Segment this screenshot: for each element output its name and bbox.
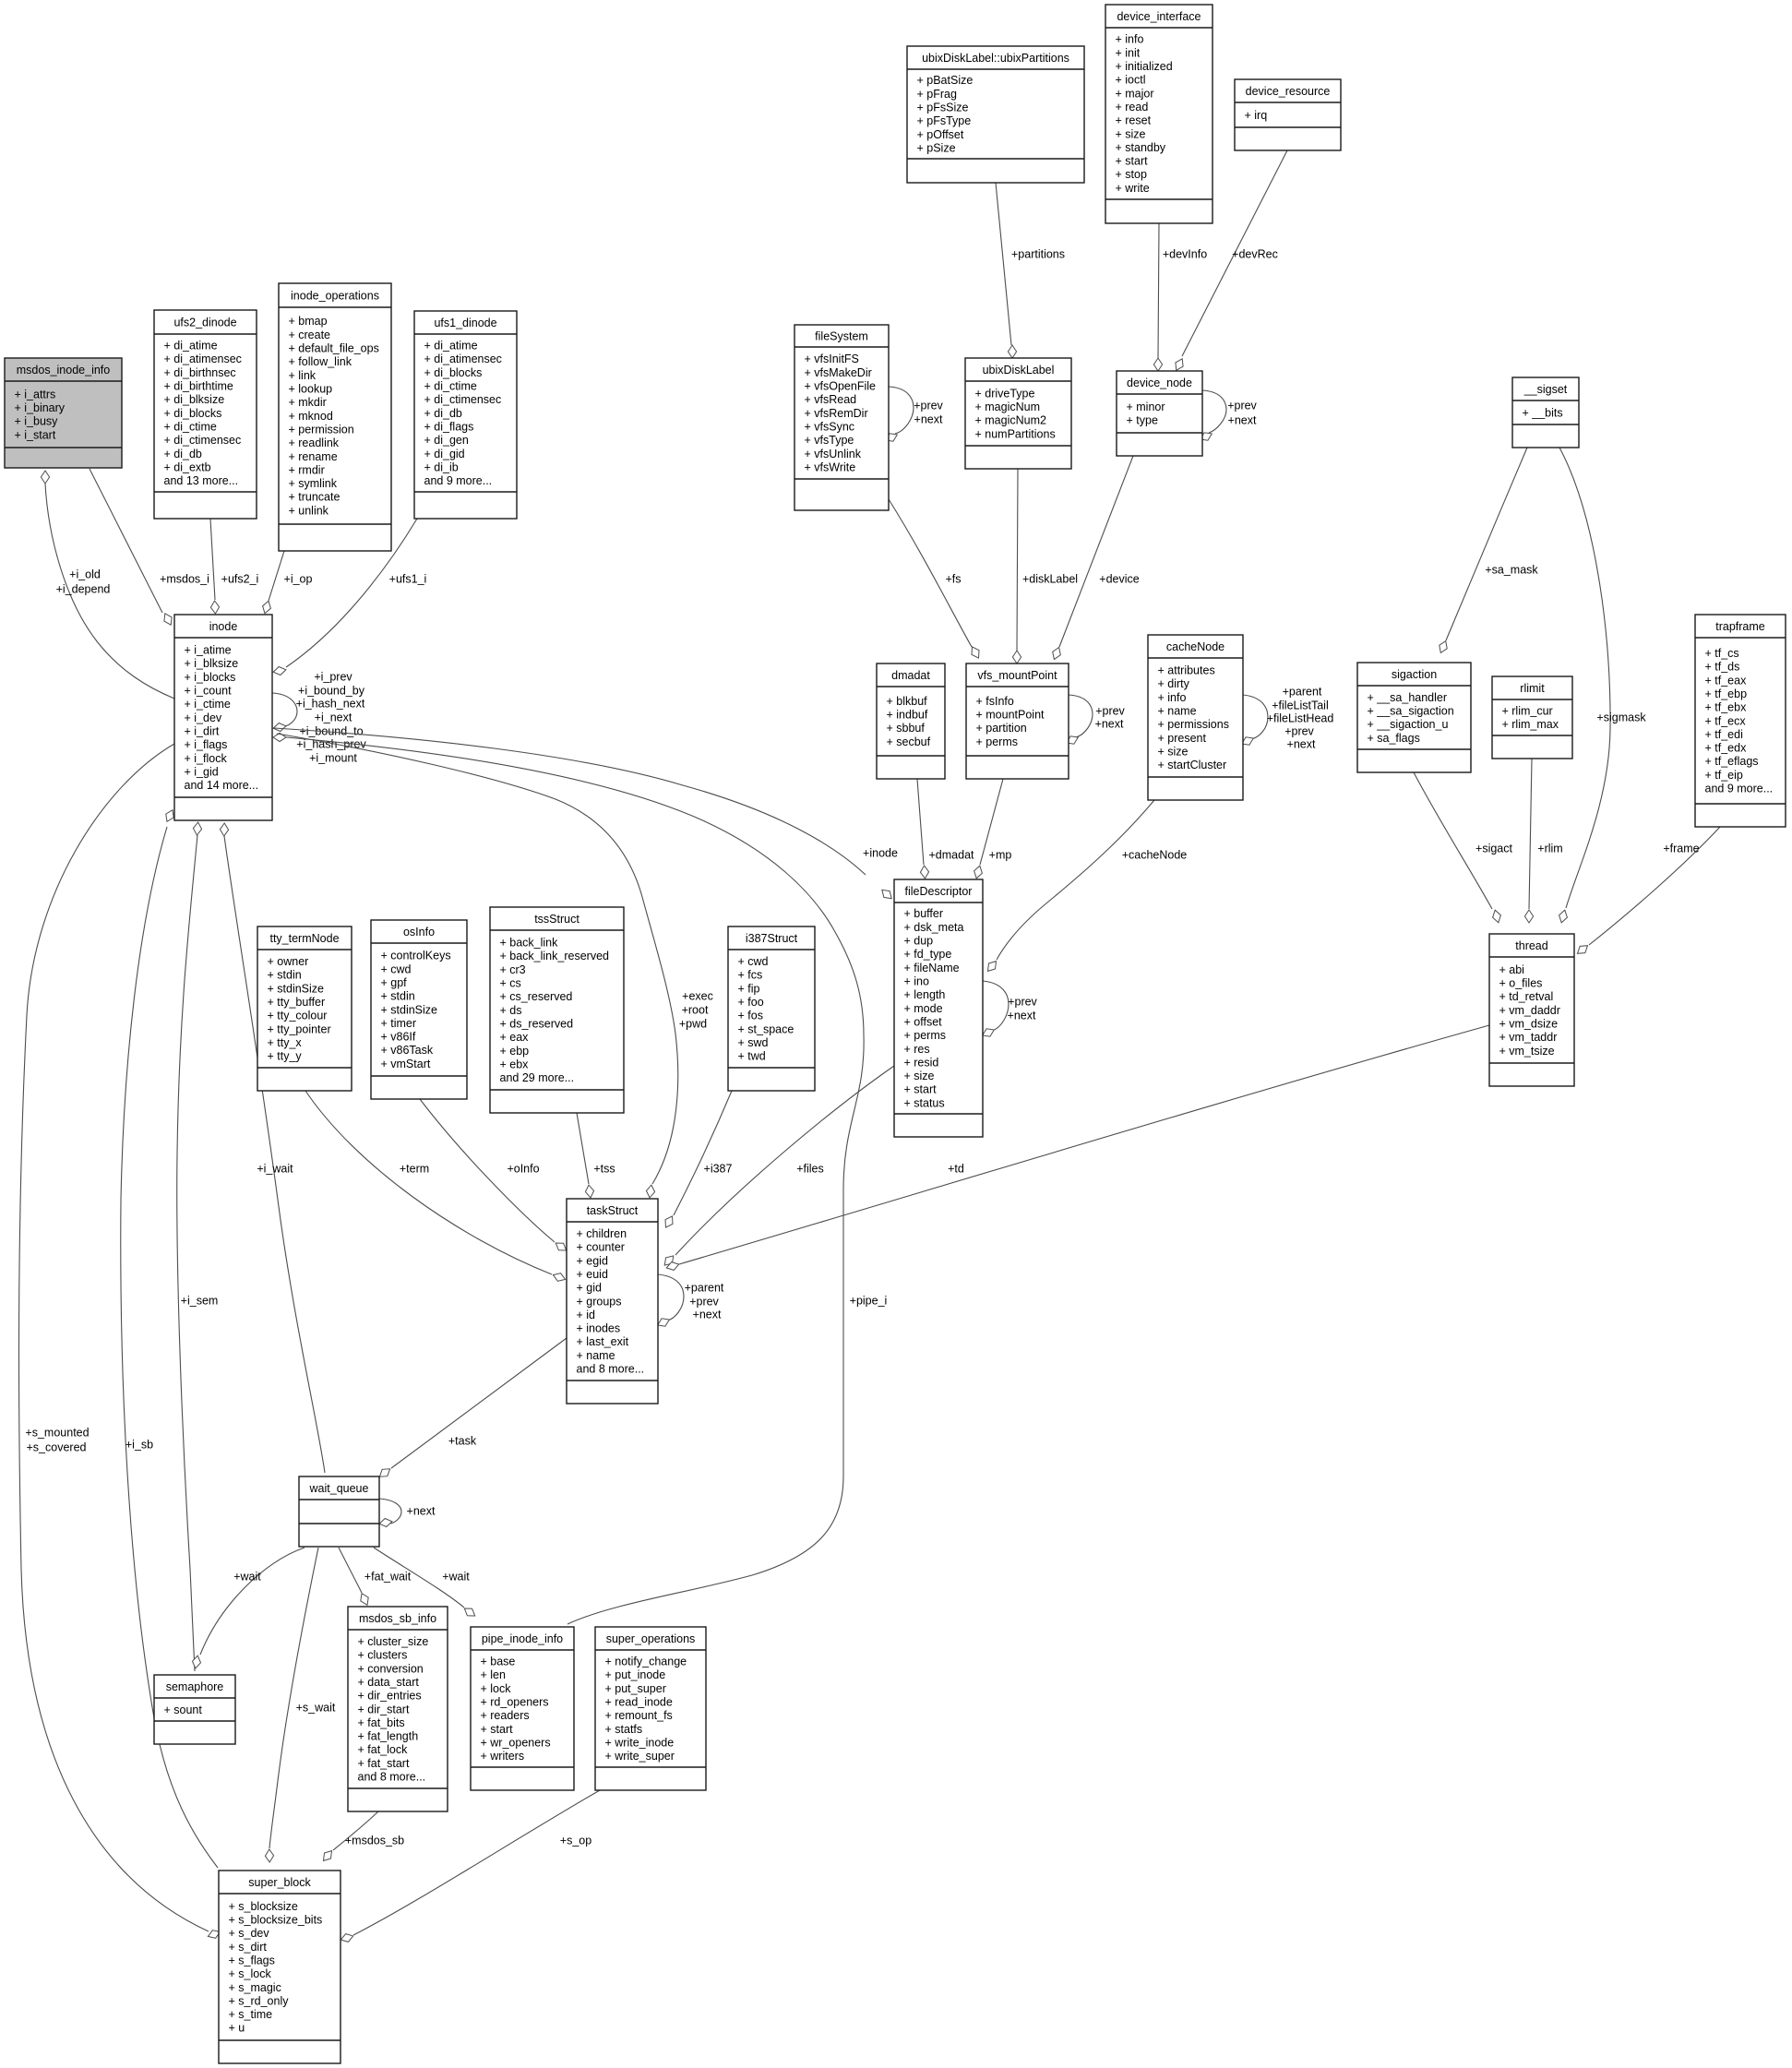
svg-text:+ dsk_meta: + dsk_meta <box>904 921 964 934</box>
svg-text:pipe_inode_info: pipe_inode_info <box>482 1632 563 1645</box>
svg-text:+ tf_ebp: + tf_ebp <box>1705 687 1748 700</box>
svg-text:+fileListHead: +fileListHead <box>1267 711 1334 724</box>
svg-text:+ lock: + lock <box>481 1682 512 1695</box>
svg-text:+next: +next <box>914 412 943 425</box>
svg-text:+ perms: + perms <box>904 1029 947 1042</box>
class box tssStruct <box>490 907 624 1113</box>
svg-text:+ res: + res <box>904 1043 930 1056</box>
svg-text:+ fat_start: + fat_start <box>358 1757 410 1770</box>
edge __sigset->thread (+sigmask) <box>1559 448 1647 923</box>
class box inode <box>174 615 272 820</box>
svg-text:+files: +files <box>796 1162 824 1175</box>
class box ubixDiskLabel <box>965 358 1071 469</box>
svg-text:+ mknod: + mknod <box>289 410 333 423</box>
edge ubixPartitions->ubixDiskLabel (+partitions) <box>996 183 1065 358</box>
svg-text:+ ebp: + ebp <box>500 1045 530 1058</box>
svg-text:+sa_mask: +sa_mask <box>1485 563 1538 576</box>
svg-text:+ info: + info <box>1158 691 1187 704</box>
svg-text:+ vfsWrite: + vfsWrite <box>805 460 856 473</box>
svg-text:+ tty_pointer: + tty_pointer <box>268 1022 331 1035</box>
svg-text:+ lookup: + lookup <box>289 383 333 396</box>
svg-text:+ di_birthtime: + di_birthtime <box>164 380 233 393</box>
svg-text:+ st_space: + st_space <box>738 1022 794 1035</box>
svg-text:+ i_atime: + i_atime <box>185 644 232 657</box>
svg-text:+ i_flock: + i_flock <box>185 752 228 765</box>
svg-text:+ size: + size <box>1158 745 1189 758</box>
svg-text:+ inodes: + inodes <box>577 1322 621 1335</box>
svg-text:+ di_ctime: + di_ctime <box>164 420 217 433</box>
svg-text:+ permission: + permission <box>289 423 354 436</box>
svg-text:+ pOffset: + pOffset <box>917 128 964 141</box>
svg-text:+ major: + major <box>1116 87 1154 100</box>
class box thread <box>1489 934 1574 1086</box>
svg-text:+ partition: + partition <box>976 722 1027 735</box>
svg-text:+ vfsUnlink: + vfsUnlink <box>805 448 862 460</box>
edge ufs2_dinode->inode (+ufs2_i) <box>210 519 258 614</box>
svg-text:+ ino: + ino <box>904 975 930 988</box>
svg-text:+ tty_y: + tty_y <box>268 1050 303 1063</box>
svg-text:+ s_blocksize: + s_blocksize <box>229 1900 298 1913</box>
svg-text:+ i_gid: + i_gid <box>185 765 219 778</box>
svg-text:+ owner: + owner <box>268 955 309 968</box>
svg-text:+i387: +i387 <box>704 1162 733 1175</box>
svg-text:+diskLabel: +diskLabel <box>1022 572 1078 585</box>
svg-text:+ cs_reserved: + cs_reserved <box>500 990 573 1003</box>
svg-text:+devRec: +devRec <box>1232 247 1278 260</box>
svg-text:+prev: +prev <box>1284 724 1314 737</box>
svg-text:+ di_blocks: + di_blocks <box>424 366 483 379</box>
class box super_block <box>219 1871 340 2063</box>
svg-text:+fs: +fs <box>945 572 961 585</box>
svg-text:+ tf_eax: + tf_eax <box>1705 674 1748 687</box>
svg-text:device_interface: device_interface <box>1117 10 1201 23</box>
svg-text:+ di_atimensec: + di_atimensec <box>164 353 242 365</box>
svg-text:+ readlink: + readlink <box>289 436 340 449</box>
svg-text:+ v86Task: + v86Task <box>381 1044 434 1057</box>
svg-text:+ follow_link: + follow_link <box>289 355 352 368</box>
svg-text:and 8 more...: and 8 more... <box>577 1363 645 1376</box>
svg-text:taskStruct: taskStruct <box>587 1204 639 1217</box>
svg-text:inode: inode <box>209 620 238 633</box>
svg-text:+next: +next <box>1228 413 1257 426</box>
svg-text:+ controlKeys: + controlKeys <box>381 950 451 962</box>
svg-text:+ swd: + swd <box>738 1036 769 1049</box>
edge device_node->vfs_mountPoint (+device) <box>1053 456 1140 660</box>
svg-text:+ i_blksize: + i_blksize <box>185 657 239 670</box>
svg-text:+device: +device <box>1099 572 1139 585</box>
svg-text:device_node: device_node <box>1127 377 1192 389</box>
svg-text:+ mountPoint: + mountPoint <box>976 709 1045 722</box>
svg-text:+ tf_ecx: + tf_ecx <box>1705 714 1747 727</box>
svg-text:+ mode: + mode <box>904 1002 943 1015</box>
edge wait_queue->msdos_sb_info (+fat_wait) <box>339 1548 412 1605</box>
svg-text:+ __sa_handler: + __sa_handler <box>1368 691 1448 704</box>
svg-text:+ di_blocks: + di_blocks <box>164 407 222 420</box>
svg-text:+ tf_ebx: + tf_ebx <box>1705 701 1748 714</box>
svg-text:+ cluster_size: + cluster_size <box>358 1635 429 1648</box>
taskStruct self loop (+parent +prev +next) <box>658 1274 724 1326</box>
svg-text:+ driveType: + driveType <box>975 387 1035 400</box>
edge inode->pipe_inode_info (+pipe_i) <box>273 733 887 1624</box>
svg-text:+ id: + id <box>577 1309 596 1321</box>
class box cacheNode <box>1148 635 1243 800</box>
svg-text:+wait: +wait <box>442 1570 470 1583</box>
svg-text:+ s_magic: + s_magic <box>229 1981 281 1994</box>
svg-text:+ init: + init <box>1116 46 1141 59</box>
svg-text:+ statfs: + statfs <box>605 1723 643 1736</box>
edge inode->fileDescriptor (+inode) <box>274 728 898 899</box>
edge dmadat->fileDescriptor (+dmadat) <box>917 779 974 879</box>
svg-text:+ truncate: + truncate <box>289 491 340 504</box>
svg-text:+ dirty: + dirty <box>1158 677 1190 690</box>
svg-text:+ indbuf: + indbuf <box>887 709 928 722</box>
svg-text:+ pSize: + pSize <box>917 141 956 154</box>
svg-text:+ initialized: + initialized <box>1116 60 1173 73</box>
svg-text:+ di_flags: + di_flags <box>424 420 474 433</box>
class box inode_operations <box>279 283 391 551</box>
svg-text:+ foo: + foo <box>738 996 764 1009</box>
svg-text:+ sount: + sount <box>164 1703 203 1716</box>
edge wait_queue->semaphore (+wait) <box>193 1548 305 1668</box>
svg-text:trapframe: trapframe <box>1715 620 1765 633</box>
svg-text:+ read_inode: + read_inode <box>605 1696 673 1709</box>
inode self loop (+i_prev +i_bound_by +i_hash_next +i_next +i_bound_to +i_hash_prev +i_mount) <box>272 670 366 764</box>
svg-text:+ start: + start <box>904 1083 938 1096</box>
svg-text:+ fcs: + fcs <box>738 969 763 982</box>
svg-text:+ di_gen: + di_gen <box>424 434 469 447</box>
svg-text:+ irq: + irq <box>1245 109 1268 122</box>
svg-text:+ di_ctimensec: + di_ctimensec <box>164 434 242 447</box>
svg-text:+ di_ctimensec: + di_ctimensec <box>424 393 502 406</box>
class box dmadat <box>877 663 945 779</box>
svg-text:+prev: +prev <box>689 1295 719 1308</box>
svg-text:+ default_file_ops: + default_file_ops <box>289 342 379 355</box>
svg-text:+ u: + u <box>229 2022 245 2035</box>
svg-text:+ size: + size <box>904 1070 935 1082</box>
svg-text:+msdos_sb: +msdos_sb <box>345 1834 404 1847</box>
edge inode->taskStruct (+exec +root +pwd) <box>277 734 713 1198</box>
svg-text:+rlim: +rlim <box>1537 842 1562 855</box>
svg-text:+ bmap: + bmap <box>289 315 328 328</box>
svg-text:__sigset: __sigset <box>1523 383 1568 396</box>
fileSystem self loop (+prev +next) <box>886 387 944 441</box>
svg-text:+ di_db: + di_db <box>164 448 202 460</box>
svg-text:+ tty_buffer: + tty_buffer <box>268 996 326 1009</box>
svg-text:+ tf_eip: + tf_eip <box>1705 769 1743 782</box>
svg-text:+ start: + start <box>481 1723 514 1736</box>
svg-text:+ rlim_cur: + rlim_cur <box>1502 705 1553 718</box>
svg-text:+ sbbuf: + sbbuf <box>887 722 926 735</box>
svg-text:and 9 more...: and 9 more... <box>1705 783 1774 795</box>
edge device_interface->device_node (+devInfo) <box>1153 223 1207 371</box>
svg-text:osInfo: osInfo <box>403 926 435 938</box>
svg-text:+ secbuf: + secbuf <box>887 735 931 748</box>
svg-text:+ stdin: + stdin <box>268 969 302 982</box>
svg-text:+ s_time: + s_time <box>229 2008 273 2021</box>
svg-text:+ v86If: + v86If <box>381 1031 416 1044</box>
svg-text:+ egid: + egid <box>577 1254 608 1267</box>
svg-text:msdos_sb_info: msdos_sb_info <box>359 1612 436 1625</box>
class box vfs_mountPoint <box>966 663 1069 779</box>
svg-text:+term: +term <box>400 1162 429 1175</box>
svg-text:+ numPartitions: + numPartitions <box>975 427 1056 440</box>
edge msdos_sb_info->super_block (+msdos_sb) <box>324 1811 405 1860</box>
svg-text:+ s_flags: + s_flags <box>229 1954 275 1967</box>
svg-text:+ fos: + fos <box>738 1010 763 1022</box>
svg-text:+ eax: + eax <box>500 1031 530 1044</box>
svg-text:+ pFrag: + pFrag <box>917 88 957 101</box>
svg-text:+ vm_tsize: + vm_tsize <box>1499 1045 1555 1058</box>
class box super_operations <box>595 1627 706 1790</box>
svg-text:+ ds: + ds <box>500 1004 522 1017</box>
svg-text:+ last_exit: + last_exit <box>577 1335 629 1348</box>
svg-text:+sigmask: +sigmask <box>1596 711 1646 723</box>
svg-text:+next: +next <box>693 1308 722 1321</box>
svg-text:+ magicNum: + magicNum <box>975 400 1041 413</box>
svg-text:+ i_busy: + i_busy <box>15 415 59 428</box>
class box msdos_sb_info <box>348 1607 448 1811</box>
svg-text:+ dir_entries: + dir_entries <box>358 1690 422 1703</box>
svg-text:+ vfsRemDir: + vfsRemDir <box>805 407 868 420</box>
svg-text:+ di_gid: + di_gid <box>424 448 465 460</box>
svg-text:+ di_extb: + di_extb <box>164 460 211 473</box>
svg-text:+exec: +exec <box>682 989 713 1002</box>
svg-text:+prev: +prev <box>1227 399 1257 412</box>
svg-text:wait_queue: wait_queue <box>309 1482 369 1495</box>
svg-text:tssStruct: tssStruct <box>534 913 579 926</box>
svg-text:+ magicNum2: + magicNum2 <box>975 414 1047 427</box>
class box rlimit <box>1492 676 1572 759</box>
svg-text:+dmadat: +dmadat <box>929 848 975 861</box>
svg-text:+ s_rd_only: + s_rd_only <box>229 1994 290 2007</box>
svg-text:+ status: + status <box>904 1096 945 1109</box>
svg-text:+ permissions: + permissions <box>1158 718 1229 731</box>
svg-text:+ rlim_max: + rlim_max <box>1502 718 1559 731</box>
svg-text:+ufs1_i: +ufs1_i <box>389 572 427 585</box>
vfs_mountPoint self loop (+prev +next) <box>1067 695 1126 744</box>
edge device_resource->device_node (+devRec) <box>1176 150 1287 370</box>
svg-text:+ tf_edi: + tf_edi <box>1705 728 1743 741</box>
class box ubixDiskLabel::ubixPartitions <box>907 46 1084 183</box>
svg-text:+ perms: + perms <box>976 735 1019 748</box>
svg-text:+ back_link_reserved: + back_link_reserved <box>500 950 610 962</box>
edge wait_queue->pipe_inode_info (+wait) <box>374 1548 475 1616</box>
svg-text:+ di_ctime: + di_ctime <box>424 380 477 393</box>
edge inode->wait_queue (+i_wait) <box>220 823 325 1473</box>
svg-text:+ cwd: + cwd <box>381 962 412 975</box>
svg-text:+i_sb: +i_sb <box>125 1438 153 1451</box>
svg-text:+ di_atime: + di_atime <box>424 340 478 353</box>
svg-text:+ vm_taddr: + vm_taddr <box>1499 1031 1558 1044</box>
svg-text:+prev: +prev <box>1095 704 1125 717</box>
svg-text:+s_mounted: +s_mounted <box>25 1426 89 1439</box>
svg-text:+ tf_cs: + tf_cs <box>1705 647 1739 660</box>
svg-text:+next: +next <box>1287 737 1316 750</box>
svg-text:+ cs: + cs <box>500 977 521 990</box>
svg-text:tty_termNode: tty_termNode <box>269 932 339 945</box>
svg-text:+ link: + link <box>289 369 317 382</box>
svg-text:+root: +root <box>682 1003 709 1016</box>
svg-text:+ symlink: + symlink <box>289 477 338 490</box>
svg-text:+ clusters: + clusters <box>358 1649 408 1662</box>
svg-text:+wait: +wait <box>233 1570 261 1583</box>
edge cacheNode->fileDescriptor (+cacheNode) <box>988 800 1188 971</box>
svg-text:+ mkdir: + mkdir <box>289 396 327 409</box>
svg-text:+ stdinSize: + stdinSize <box>268 982 325 995</box>
svg-text:+fileListTail: +fileListTail <box>1272 699 1329 711</box>
cacheNode self loop (+parent +fileListTail +fileListHead +prev +next) <box>1242 685 1334 750</box>
svg-text:+ abi: + abi <box>1499 963 1524 976</box>
svg-text:ufs1_dinode: ufs1_dinode <box>434 317 496 329</box>
class box sigaction <box>1357 663 1471 772</box>
svg-text:+prev: +prev <box>914 399 943 412</box>
svg-text:+ timer: + timer <box>381 1017 417 1030</box>
svg-text:device_resource: device_resource <box>1246 85 1331 98</box>
svg-text:+ cr3: + cr3 <box>500 963 526 976</box>
svg-text:inode_operations: inode_operations <box>291 289 379 302</box>
class box device_resource <box>1235 79 1341 150</box>
svg-text:+ start: + start <box>1116 155 1149 168</box>
svg-text:+ stop: + stop <box>1116 168 1147 181</box>
svg-text:+ di_atimensec: + di_atimensec <box>424 353 502 365</box>
svg-text:msdos_inode_info: msdos_inode_info <box>17 364 111 377</box>
svg-text:+ di_birthnsec: + di_birthnsec <box>164 366 236 379</box>
edge rlimit->thread (+rlim) <box>1524 759 1562 923</box>
svg-text:super_operations: super_operations <box>606 1632 696 1645</box>
svg-text:+ s_dirt: + s_dirt <box>229 1941 268 1954</box>
svg-text:+ o_files: + o_files <box>1499 977 1543 990</box>
svg-text:+ vfsMakeDir: + vfsMakeDir <box>805 366 872 379</box>
svg-text:+mp: +mp <box>989 848 1012 861</box>
svg-text:+ readers: + readers <box>481 1709 530 1722</box>
svg-text:+ startCluster: + startCluster <box>1158 759 1227 771</box>
class box pipe_inode_info <box>471 1627 574 1790</box>
svg-text:+ vfsRead: + vfsRead <box>805 393 857 406</box>
svg-text:+ length: + length <box>904 988 946 1001</box>
svg-text:+ pFsType: + pFsType <box>917 114 972 127</box>
svg-text:ubixDiskLabel::ubixPartitions: ubixDiskLabel::ubixPartitions <box>922 52 1069 65</box>
svg-text:and 8 more...: and 8 more... <box>358 1771 426 1784</box>
edge inode->super_block (+i_sb) <box>121 810 218 1868</box>
svg-text:+ name: + name <box>1158 705 1197 718</box>
svg-text:+i_op: +i_op <box>284 572 313 585</box>
edge ubixDiskLabel->vfs_mountPoint (+diskLabel) <box>1012 469 1078 663</box>
svg-text:+ offset: + offset <box>904 1016 943 1029</box>
svg-text:+next: +next <box>1095 717 1124 730</box>
svg-text:+ vfsInitFS: + vfsInitFS <box>805 353 859 365</box>
svg-text:+ i_start: + i_start <box>15 428 56 441</box>
svg-text:+ type: + type <box>1127 414 1158 427</box>
svg-text:+ fat_bits: + fat_bits <box>358 1716 405 1729</box>
svg-text:+s_covered: +s_covered <box>27 1440 87 1453</box>
svg-text:+ s_blocksize_bits: + s_blocksize_bits <box>229 1914 323 1927</box>
svg-text:i387Struct: i387Struct <box>746 932 798 945</box>
edge wait_queue->super_block (+s_wait) <box>265 1548 335 1862</box>
svg-text:+tss: +tss <box>593 1162 615 1175</box>
class box tty_termNode <box>257 926 352 1091</box>
svg-text:+i_sem: +i_sem <box>181 1294 219 1307</box>
svg-text:+ write: + write <box>1116 182 1150 195</box>
svg-text:thread: thread <box>1515 939 1547 952</box>
svg-text:+ conversion: + conversion <box>358 1662 424 1675</box>
svg-text:+ fat_lock: + fat_lock <box>358 1743 409 1756</box>
svg-text:+ info: + info <box>1116 33 1144 46</box>
svg-text:+ tf_ds: + tf_ds <box>1705 661 1740 674</box>
svg-text:+ gpf: + gpf <box>381 976 408 989</box>
svg-text:cacheNode: cacheNode <box>1166 640 1225 653</box>
svg-text:+ fileName: + fileName <box>904 962 960 974</box>
svg-text:+ unlink: + unlink <box>289 504 329 517</box>
svg-text:+ tf_eflags: + tf_eflags <box>1705 755 1759 768</box>
edge trapframe->thread (+frame) <box>1578 827 1721 953</box>
svg-text:fileDescriptor: fileDescriptor <box>905 885 973 898</box>
svg-text:+parent: +parent <box>685 1281 724 1294</box>
svg-text:+ write_inode: + write_inode <box>605 1736 675 1749</box>
svg-text:+cacheNode: +cacheNode <box>1122 848 1188 861</box>
svg-text:+ dir_start: + dir_start <box>358 1703 410 1715</box>
svg-text:+ i_blocks: + i_blocks <box>185 671 236 684</box>
svg-text:+ name: + name <box>577 1349 615 1362</box>
class box fileSystem <box>794 325 889 510</box>
edge fileSystem->vfs_mountPoint (+fs) <box>889 499 979 658</box>
svg-text:+s_wait: +s_wait <box>296 1701 336 1714</box>
svg-text:+ i_dirt: + i_dirt <box>185 724 220 737</box>
edge tssStruct->taskStruct (+tss) <box>577 1113 615 1198</box>
svg-text:+ ebx: + ebx <box>500 1058 530 1070</box>
svg-text:+i_prev: +i_prev <box>314 670 352 683</box>
svg-text:+ writers: + writers <box>481 1750 525 1763</box>
svg-text:and 13 more...: and 13 more... <box>164 474 239 487</box>
svg-text:+ tty_x: + tty_x <box>268 1036 303 1049</box>
svg-text:sigaction: sigaction <box>1392 668 1437 681</box>
svg-text:+ cwd: + cwd <box>738 955 769 968</box>
svg-text:+ euid: + euid <box>577 1268 608 1281</box>
svg-text:+ buffer: + buffer <box>904 907 944 920</box>
svg-text:+ di_db: + di_db <box>424 407 462 420</box>
svg-text:+ data_start: + data_start <box>358 1676 420 1689</box>
svg-text:+partitions: +partitions <box>1011 247 1065 260</box>
svg-text:+ create: + create <box>289 329 331 341</box>
svg-text:+ fat_length: + fat_length <box>358 1730 419 1743</box>
svg-text:+msdos_i: +msdos_i <box>160 572 209 585</box>
svg-text:+ vm_dsize: + vm_dsize <box>1499 1018 1559 1031</box>
class box wait_queue <box>299 1476 379 1547</box>
svg-text:+i_old: +i_old <box>69 568 101 580</box>
svg-text:+ di_atime: + di_atime <box>164 340 218 353</box>
svg-text:+i_wait: +i_wait <box>257 1162 293 1175</box>
edge i387Struct->taskStruct (+i387) <box>665 1091 733 1227</box>
class box i387Struct <box>728 926 815 1091</box>
svg-text:ufs2_dinode: ufs2_dinode <box>173 316 236 329</box>
svg-text:+ notify_change: + notify_change <box>605 1656 687 1668</box>
svg-text:+next: +next <box>407 1504 436 1517</box>
edge thread->taskStruct (+td) <box>666 1025 1489 1270</box>
svg-text:+ read: + read <box>1116 101 1149 114</box>
svg-text:ubixDiskLabel: ubixDiskLabel <box>983 364 1055 377</box>
svg-text:+ td_retval: + td_retval <box>1499 990 1554 1003</box>
svg-text:+ ioctl: + ioctl <box>1116 74 1146 87</box>
svg-text:+ tty_colour: + tty_colour <box>268 1010 328 1022</box>
svg-text:+ rd_openers: + rd_openers <box>481 1696 549 1709</box>
svg-text:+prev: +prev <box>1008 995 1037 1008</box>
edge sigaction->thread (+sigact) <box>1414 772 1512 923</box>
svg-text:+ __bits: + __bits <box>1523 406 1563 419</box>
svg-text:+ stdinSize: + stdinSize <box>381 1003 438 1016</box>
svg-text:+s_op: +s_op <box>560 1834 591 1847</box>
svg-text:+ di_blksize: + di_blksize <box>164 393 225 406</box>
svg-text:+ present: + present <box>1158 732 1207 745</box>
svg-text:+ i_dev: + i_dev <box>185 711 222 724</box>
